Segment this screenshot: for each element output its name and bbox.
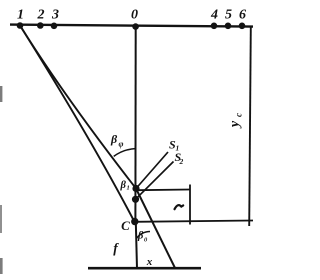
ray to S2 (136, 162, 174, 200)
node 2 dot (37, 22, 44, 29)
svg-text:y: y (228, 120, 243, 129)
ray to S1 (136, 152, 168, 189)
svg-text:1: 1 (17, 8, 24, 23)
refracted ray through node to image plane (136, 189, 176, 270)
svg-text:6: 6 (239, 8, 246, 23)
node 1 dot (17, 22, 24, 29)
object line (top horizontal) (10, 25, 253, 27)
svg-text:1: 1 (127, 185, 130, 192)
ray A from point 1 to C (20, 26, 134, 222)
scan artifact left edge (0, 86, 2, 102)
node 5 dot (225, 23, 232, 30)
svg-text:β: β (137, 231, 144, 242)
dimension line l top (137, 189, 190, 192)
ray B from point 1 to node S1 origin (20, 26, 136, 189)
image plane baseline (88, 267, 201, 270)
node dot S2 origin (132, 196, 139, 203)
svg-text:3: 3 (51, 8, 59, 23)
svg-text:φ: φ (119, 139, 124, 149)
axis continuation below C to image plane (136, 222, 137, 269)
dimension line bottom (through C) (135, 221, 253, 222)
scan artifact bottom left (0, 258, 3, 274)
label l (rotated) (175, 205, 184, 209)
svg-text:β: β (110, 132, 118, 146)
svg-text:4: 4 (210, 8, 218, 23)
node 4 dot (211, 23, 218, 30)
node 6 dot (239, 23, 246, 30)
principal vertical axis from 0 (134, 27, 136, 222)
svg-text:C: C (121, 218, 130, 233)
svg-text:x: x (146, 256, 153, 268)
svg-text:0: 0 (131, 8, 138, 23)
node dot S1 origin (132, 185, 139, 192)
svg-text:β: β (120, 180, 127, 191)
node 0 dot (132, 23, 139, 30)
angle arc beta-phi (114, 149, 137, 157)
scan artifact left edge (0, 205, 2, 233)
node C dot (131, 218, 138, 225)
svg-text:5: 5 (225, 8, 232, 23)
node 3 dot (51, 23, 58, 30)
svg-text:2: 2 (179, 157, 184, 166)
label y_c (rotated) (228, 113, 244, 129)
svg-text:c: c (234, 113, 244, 117)
angle arc phi-0 at C (136, 232, 150, 239)
dimension extension vertical at l (189, 185, 191, 225)
svg-text:2: 2 (37, 8, 45, 23)
right vertical y_c line (249, 27, 251, 226)
